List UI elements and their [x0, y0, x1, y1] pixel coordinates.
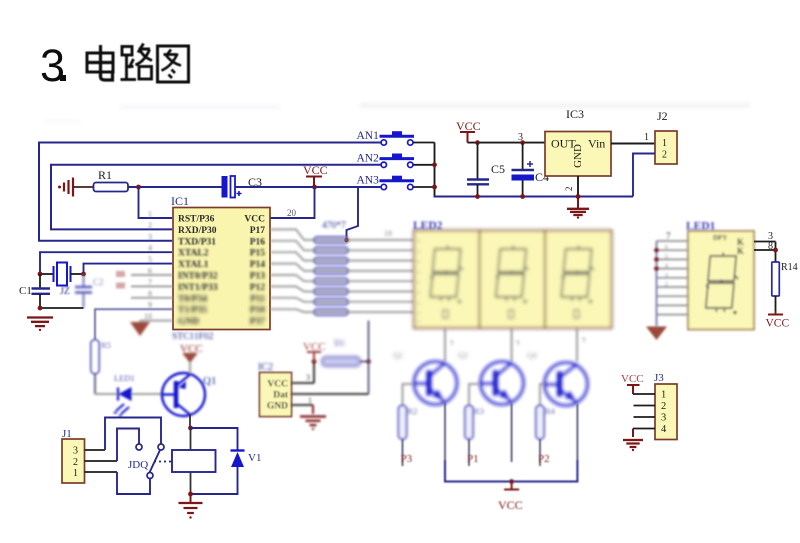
svg-text:P3: P3	[401, 453, 413, 465]
svg-text:Dat: Dat	[273, 391, 289, 401]
svg-text:GND: GND	[178, 317, 199, 327]
resistor R1	[94, 183, 129, 192]
resistor R14	[772, 262, 780, 296]
svg-text:2: 2	[148, 221, 152, 230]
wire C2 to gnd rail	[40, 307, 84, 309]
wire R4 to port P2	[538, 439, 550, 466]
svg-text:R5: R5	[101, 340, 111, 350]
svg-text:LED1: LED1	[686, 221, 716, 233]
svg-text:Q2: Q2	[393, 351, 403, 360]
svg-text:a: a	[417, 290, 420, 296]
node AN2 common	[432, 162, 437, 167]
relay coil	[172, 450, 216, 472]
wire IC2 GND	[292, 404, 314, 406]
resistor R4	[536, 384, 556, 439]
node xtal right	[81, 272, 86, 277]
diode V1	[191, 428, 238, 450]
svg-text:P17: P17	[250, 226, 266, 236]
svg-text:P16: P16	[250, 237, 266, 247]
svg-text:3: 3	[148, 232, 152, 241]
svg-text:P11: P11	[250, 294, 265, 304]
node xtal left	[38, 272, 43, 277]
svg-text:470*7: 470*7	[322, 221, 346, 231]
wire Q1 emitter down	[189, 415, 191, 429]
svg-text:7: 7	[666, 231, 671, 241]
resistor R2	[399, 384, 418, 439]
svg-text:Q4: Q4	[527, 351, 537, 360]
svg-text:a: a	[417, 280, 420, 286]
svg-text:1: 1	[661, 390, 666, 401]
wire gnd rail	[434, 196, 634, 198]
svg-text:C2: C2	[93, 277, 104, 287]
transistor Q2	[393, 351, 457, 405]
wire IC3 out to J2	[611, 143, 655, 145]
resistor R5	[91, 340, 111, 394]
transistor Q4	[527, 351, 588, 406]
VCC (R14)	[768, 314, 783, 316]
IC1 left stubs	[116, 271, 173, 298]
wire gnd-R1	[73, 186, 93, 188]
ground (IC2)	[300, 415, 326, 417]
svg-text:LED1: LED1	[114, 373, 135, 383]
ground (relay)	[190, 494, 192, 503]
svg-text:3: 3	[73, 446, 78, 457]
svg-text:1: 1	[662, 138, 667, 149]
svg-text:R4: R4	[545, 406, 556, 416]
svg-text:P10: P10	[250, 306, 266, 316]
svg-text:C5: C5	[491, 162, 505, 176]
title char 电	[87, 45, 113, 80]
wire AN1 net (left rail outer)	[39, 143, 381, 241]
capacitor C2 (blurry)	[75, 274, 104, 308]
display LED1	[688, 231, 754, 330]
svg-text:VCC: VCC	[267, 380, 288, 390]
svg-text:C1: C1	[19, 285, 32, 297]
ground (IC3)	[577, 197, 579, 209]
svg-text:9: 9	[582, 336, 586, 344]
gray bus IC1 to LED2	[270, 229, 414, 312]
svg-text:a: a	[417, 311, 420, 317]
svg-text:XTAL1: XTAL1	[178, 260, 209, 270]
svg-text:3: 3	[661, 413, 666, 424]
svg-text:J2: J2	[657, 109, 668, 123]
svg-text:Q3: Q3	[458, 351, 468, 360]
svg-text:T1/P35: T1/P35	[178, 306, 207, 316]
resistor R6 pullup	[322, 338, 360, 366]
svg-text:VCC: VCC	[766, 318, 790, 330]
wire C3 to AN3 row	[235, 186, 381, 188]
svg-text:2: 2	[564, 187, 574, 192]
LED1 left pins	[646, 231, 688, 340]
IC1 pin numbers left	[144, 210, 152, 322]
svg-text:VCC: VCC	[303, 163, 328, 177]
svg-text:R2: R2	[408, 406, 418, 416]
svg-text:RXD/P30: RXD/P30	[178, 226, 217, 236]
svg-text:TXD/P31: TXD/P31	[178, 237, 216, 247]
svg-text:3: 3	[40, 40, 65, 91]
IC1 GND arrow	[130, 321, 173, 336]
svg-text:J3: J3	[654, 372, 664, 384]
VCC (Q1 collector)	[180, 343, 203, 374]
wire AN2 right contact	[413, 164, 434, 166]
svg-text:R6: R6	[334, 338, 345, 348]
wire J3 pin1	[633, 393, 655, 395]
svg-text:20: 20	[287, 208, 297, 218]
svg-text:JDQ: JDQ	[128, 459, 148, 471]
svg-text:XTAL2: XTAL2	[178, 249, 209, 259]
wire J1 pin1 to switch common	[85, 471, 118, 473]
regulator IC3	[545, 132, 611, 177]
node vcc rail	[509, 479, 514, 484]
svg-text:R14: R14	[781, 262, 798, 273]
wires transistor emitters to VCC rail	[445, 403, 577, 512]
svg-text:a: a	[417, 239, 420, 245]
wire R2 to port P3	[401, 439, 413, 466]
node C5 top	[475, 140, 480, 145]
svg-text:Q1: Q1	[203, 375, 216, 387]
svg-text:1: 1	[73, 468, 78, 479]
pushbutton AN2	[380, 154, 415, 168]
svg-text:IC3: IC3	[566, 107, 584, 121]
sensor IC2	[260, 373, 292, 417]
svg-text:GND: GND	[572, 144, 584, 168]
label LED2	[413, 220, 443, 232]
wire R1-C3	[128, 186, 222, 188]
node vcc-c3	[312, 185, 317, 190]
svg-text:VCC: VCC	[244, 215, 265, 225]
ground (reset, left of R1)	[64, 178, 73, 197]
svg-text:a: a	[417, 269, 420, 275]
svg-text:P12: P12	[250, 283, 266, 293]
svg-text:VCC: VCC	[456, 119, 481, 133]
svg-text:9: 9	[516, 339, 520, 347]
wire J1 pin2 to switch NC	[85, 460, 118, 462]
node C5 bottom	[475, 194, 480, 199]
wire vcc row	[468, 142, 546, 144]
svg-text:2: 2	[662, 150, 667, 161]
wire IC2 Dat	[292, 393, 369, 395]
svg-text:R3: R3	[474, 406, 484, 416]
node reset junction	[136, 185, 141, 190]
svg-text:2: 2	[661, 401, 666, 412]
capacitor C4 (polarized)	[522, 143, 524, 169]
wire J3 pin4 to gnd	[633, 428, 655, 430]
svg-text:VCC: VCC	[498, 498, 523, 512]
node pack top feed	[344, 238, 348, 242]
pushbutton AN3	[380, 176, 415, 190]
node IC3 gnd	[576, 194, 581, 199]
wire XTAL1	[84, 264, 173, 274]
svg-text:IC2: IC2	[258, 362, 273, 373]
svg-text:2: 2	[665, 281, 668, 288]
wire XTAL2	[40, 252, 172, 274]
svg-text:P13: P13	[250, 272, 266, 282]
wire J3 pin3	[634, 416, 656, 418]
svg-text:AN3: AN3	[357, 175, 380, 187]
svg-text:5: 5	[665, 253, 668, 260]
svg-text:K: K	[737, 246, 744, 256]
wire AN3 right contact	[413, 186, 434, 188]
wire VCC junction down to IC1 pin20	[270, 187, 315, 218]
connector J2	[655, 131, 677, 164]
svg-text:2: 2	[73, 457, 78, 468]
svg-text:3: 3	[665, 272, 668, 279]
wire AN3 to resistor pack	[347, 187, 359, 240]
node R14 top	[773, 248, 778, 253]
node C1 gnd	[38, 306, 43, 311]
wire R3 to port P1	[467, 439, 479, 466]
svg-text:IC1: IC1	[171, 194, 189, 208]
wire junction to IC1 RST	[139, 187, 173, 218]
pushbutton AN1	[380, 132, 415, 146]
svg-text:AN2: AN2	[357, 152, 380, 164]
svg-text:a: a	[417, 249, 420, 255]
svg-text:1: 1	[644, 132, 649, 143]
svg-text:AN1: AN1	[357, 130, 380, 142]
crystal JZ	[40, 273, 54, 275]
svg-text:GND: GND	[267, 402, 288, 412]
svg-text:1: 1	[308, 396, 312, 405]
resistor network 470*7	[314, 221, 348, 315]
svg-text:RST/P36: RST/P36	[178, 215, 215, 225]
wire J3 pin2	[634, 405, 656, 407]
ground (J3)	[623, 439, 643, 441]
svg-text:VCC: VCC	[621, 373, 644, 385]
svg-text:P14: P14	[250, 260, 266, 270]
node relay top	[188, 426, 193, 431]
svg-text:9: 9	[450, 339, 454, 347]
wire buttons common vertical	[434, 143, 436, 197]
svg-text:T0/P34: T0/P34	[178, 294, 207, 304]
wire J1 pin3 to switch NO	[85, 449, 106, 451]
wires LED1 K pins	[754, 241, 776, 243]
svg-text:INT1/P33: INT1/P33	[178, 283, 218, 293]
svg-text:4: 4	[661, 424, 667, 435]
svg-text:P2: P2	[538, 453, 550, 465]
wire IC2 VCC	[292, 341, 326, 383]
wire IC3 gnd stem	[577, 176, 579, 197]
wire AN1 right contact	[413, 142, 434, 144]
capacitor C3	[222, 176, 228, 198]
svg-text:a: a	[417, 319, 420, 325]
capacitor C5	[477, 143, 479, 179]
svg-text:P37: P37	[250, 317, 266, 327]
svg-text:3: 3	[306, 373, 310, 382]
wire P37 row (to IC2 and LED2 pin9)	[270, 320, 414, 322]
resistor R3	[465, 384, 484, 439]
title char 图	[158, 46, 189, 82]
svg-text:V1: V1	[248, 452, 261, 464]
node relay gnd	[188, 492, 193, 497]
svg-text:JZ: JZ	[60, 286, 70, 297]
wire AN2 net (left rail inner)	[51, 165, 381, 230]
node C4 bottom	[520, 194, 525, 199]
svg-text:INT0/P32: INT0/P32	[178, 272, 218, 282]
ground arrow (LED1)	[646, 327, 667, 341]
svg-text:18: 18	[384, 229, 392, 238]
node C4 top / pin3	[520, 140, 525, 145]
wire J2 pin2	[633, 154, 655, 197]
MCU IC1	[173, 208, 270, 330]
svg-text:Vin: Vin	[588, 137, 605, 151]
svg-text:P1: P1	[467, 453, 479, 465]
svg-text:DPY: DPY	[713, 234, 727, 242]
LED indicator	[95, 373, 162, 417]
wire R6 right to P37 net	[292, 321, 371, 430]
ground (XTAL)	[27, 316, 53, 318]
wire T1/P35 to R5	[95, 309, 173, 340]
svg-text:1: 1	[148, 210, 152, 219]
node AN3 common	[432, 185, 437, 190]
svg-text:a: a	[417, 300, 420, 306]
transistor Q3	[458, 351, 524, 405]
svg-text:LED2: LED2	[413, 220, 443, 232]
title char 路	[121, 44, 153, 80]
display LED2	[414, 231, 612, 329]
svg-text:3: 3	[518, 132, 523, 143]
svg-text:8: 8	[768, 241, 773, 252]
svg-text:a: a	[417, 259, 420, 265]
svg-text:P15: P15	[250, 249, 266, 259]
faint smudge	[44, 103, 750, 123]
svg-text:R1: R1	[98, 168, 112, 182]
svg-text:STC11F02: STC11F02	[172, 332, 214, 342]
label STC11F02	[172, 332, 214, 342]
transistor Q1 (PNP)	[162, 373, 216, 416]
wires LED2 digit commons down	[445, 328, 586, 362]
